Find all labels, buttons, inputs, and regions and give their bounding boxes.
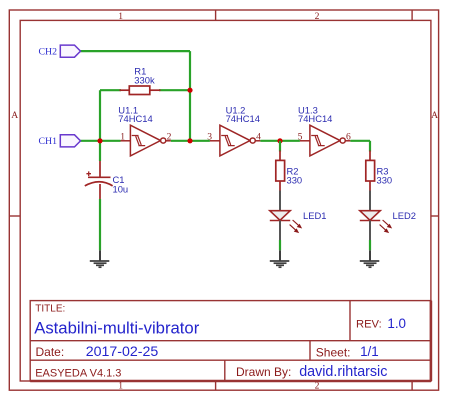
svg-text:Sheet:: Sheet:: [316, 345, 351, 359]
svg-text:CH2: CH2: [39, 47, 58, 58]
wire R1 right: [159, 89, 190, 91]
resistor R3: [366, 151, 392, 191]
wire U1.3 out: [345, 140, 350, 142]
svg-text:A: A: [11, 110, 18, 121]
ground C1: [90, 250, 110, 267]
op-amp U1.1: [118, 105, 171, 156]
resistor R1: [120, 65, 161, 94]
wire R1 left: [100, 89, 121, 91]
wire CH1 to junction: [81, 140, 121, 142]
capacitor C1: [85, 161, 128, 199]
svg-text:330k: 330k: [134, 75, 155, 86]
op-amp U1.2: [207, 105, 261, 156]
svg-text:LED2: LED2: [393, 210, 416, 221]
wire junction to R2: [279, 141, 281, 152]
tick left: [9, 215, 20, 217]
wire LED1 to ground: [279, 221, 281, 241]
resistor R2: [276, 151, 302, 191]
net port CH1: [39, 135, 81, 147]
svg-text:A: A: [431, 110, 438, 121]
svg-text:1: 1: [118, 11, 123, 22]
wire R3 to LED2: [369, 191, 371, 211]
svg-text:330: 330: [377, 175, 393, 186]
ground LED2: [360, 250, 380, 267]
tick right: [431, 215, 439, 217]
svg-text:74HC14: 74HC14: [118, 113, 152, 124]
wire vertical x100: [99, 90, 101, 161]
svg-text:5: 5: [298, 131, 303, 142]
svg-text:10u: 10u: [113, 184, 129, 195]
svg-text:david.rihtarsic: david.rihtarsic: [299, 364, 387, 380]
wire R2 to LED1: [279, 191, 281, 211]
wire C1 to ground: [99, 199, 101, 250]
junction U1.1 out: [187, 138, 192, 143]
svg-text:3: 3: [207, 131, 212, 142]
tick bottom: [215, 381, 217, 390]
svg-text:TITLE:: TITLE:: [35, 304, 65, 315]
svg-text:74HC14: 74HC14: [298, 113, 332, 124]
svg-text:Date:: Date:: [36, 345, 65, 359]
svg-text:330: 330: [287, 175, 303, 186]
tick top right: [411, 10, 413, 20]
svg-text:Drawn By:: Drawn By:: [236, 365, 291, 379]
title block: [30, 301, 431, 381]
svg-text:2: 2: [315, 11, 320, 22]
svg-text:REV:: REV:: [356, 319, 382, 331]
junction CH1/C1: [97, 138, 102, 143]
svg-text:LED1: LED1: [303, 210, 326, 221]
svg-text:1: 1: [120, 131, 125, 142]
LED LED1: [270, 210, 327, 232]
junction at R1 right: [187, 88, 192, 93]
wire CH2 horizontal: [80, 50, 190, 52]
svg-text:2017-02-25: 2017-02-25: [86, 344, 159, 360]
junction U1.2 out: [277, 138, 282, 143]
pin 3 lead: [210, 140, 220, 142]
pin 1 lead: [121, 140, 131, 142]
tick bottom right: [411, 381, 413, 390]
wire down to R3: [369, 141, 371, 152]
tick top: [215, 10, 217, 20]
svg-text:Astabilni-multi-vibrator: Astabilni-multi-vibrator: [34, 318, 200, 337]
LED LED2: [360, 210, 416, 232]
pin 5 lead: [300, 140, 310, 142]
wire U1.1 out: [166, 140, 171, 142]
wire LED2 to ground: [369, 221, 371, 241]
svg-text:74HC14: 74HC14: [226, 113, 260, 124]
ground LED1: [270, 250, 290, 267]
op-amp U1.3: [298, 105, 351, 156]
wire U1.2 out: [255, 140, 260, 142]
net port CH2: [39, 45, 81, 57]
svg-text:1/1: 1/1: [360, 344, 379, 359]
svg-text:CH1: CH1: [39, 136, 58, 147]
wire vertical x190: [189, 51, 191, 141]
svg-text:1.0: 1.0: [387, 316, 406, 331]
svg-text:EASYEDA V4.1.3: EASYEDA V4.1.3: [35, 368, 121, 380]
